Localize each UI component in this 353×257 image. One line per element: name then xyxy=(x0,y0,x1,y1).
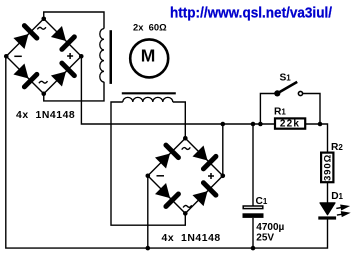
diode BR2 left-to-top arm xyxy=(155,145,178,168)
BR2 ~ mark top xyxy=(182,147,191,149)
svg-text:http://www.qsl.net/va3iul/: http://www.qsl.net/va3iul/ xyxy=(170,5,332,21)
svg-text:4x 1N4148: 4x 1N4148 xyxy=(16,110,75,121)
wire R1 right to junction then to R2 riser xyxy=(306,124,328,152)
wire winding L2 right end to BR2 top node xyxy=(173,102,186,138)
wire winding L2 left end down then right to BR2 bottom node xyxy=(111,102,185,225)
LED D1 light emission arrows xyxy=(336,205,348,216)
junction minus-bus / C1 xyxy=(251,246,256,251)
LED D1 triangle xyxy=(320,203,335,215)
winding L2 horizontal coil xyxy=(123,97,173,102)
node BR1 plus right xyxy=(79,54,84,59)
junction plus-bus / BR2 right riser xyxy=(221,122,226,127)
svg-text:R2: R2 xyxy=(331,142,343,153)
svg-text:S1: S1 xyxy=(280,73,292,84)
wire R2 bottom to LED D1 anode xyxy=(327,183,329,203)
core bar of L2 xyxy=(122,92,176,94)
switch S1 pivot xyxy=(274,90,280,96)
svg-text:2x 60Ω: 2x 60Ω xyxy=(133,21,167,32)
capacitor C1 bottom plate solid xyxy=(243,213,264,218)
switch S1 contact circle xyxy=(298,91,302,95)
core bar of L1 xyxy=(110,30,113,84)
svg-text:390Ω: 390Ω xyxy=(322,154,333,181)
wire S1 right side down to junction xyxy=(303,94,320,125)
junction plus-bus / C1 xyxy=(251,122,256,127)
wire plus bus: BR1 right node down then right to R1 left xyxy=(81,56,274,124)
wire BR2 right node up to plus bus xyxy=(222,124,224,176)
BR1 minus mark xyxy=(14,55,21,57)
svg-text:C1: C1 xyxy=(256,196,268,207)
wire minus bus: BR1 left node down, along bottom, up to LED cathode xyxy=(6,56,328,248)
diode BR1 bottom-to-right arm xyxy=(51,63,74,86)
junction plus-bus / S1 riser xyxy=(258,122,263,127)
junction minus-bus / BR2 left riser xyxy=(146,246,151,251)
node BR2 AC top xyxy=(183,136,188,141)
node BR2 AC bottom xyxy=(183,211,188,216)
junction R1 right / S1 / R2 branch xyxy=(318,122,323,127)
diode BR1 left-to-top arm xyxy=(13,26,36,49)
wire BR2 left node down to minus bus xyxy=(147,176,149,248)
switch S1 blade xyxy=(277,82,297,94)
BR1 ~ mark top xyxy=(37,27,46,29)
winding L1 vertical coil xyxy=(100,29,104,82)
svg-text:R1: R1 xyxy=(274,106,286,117)
resistor R2 box xyxy=(321,153,333,183)
svg-text:4x 1N4148: 4x 1N4148 xyxy=(162,233,221,244)
node BR2 plus right xyxy=(221,174,226,179)
node BR1 minus left xyxy=(4,54,9,59)
svg-text:25V: 25V xyxy=(256,233,274,244)
wire C1 bottom lead to minus bus xyxy=(252,218,254,248)
BR2 plus mark xyxy=(208,173,214,179)
BR2 ~ mark bottom xyxy=(183,205,192,207)
bridge rectifier BR1 diamond wiring xyxy=(6,19,81,94)
wire BR1 bottom node to winding L1 bottom xyxy=(44,82,104,101)
node BR2 minus left xyxy=(146,174,151,179)
wire BR1 top node to winding L1 top xyxy=(44,12,104,29)
BR2 minus mark xyxy=(157,175,165,177)
svg-text:4700µ: 4700µ xyxy=(256,222,284,233)
diode BR2 bottom-to-right arm xyxy=(193,183,216,206)
capacitor C1 top plate outline xyxy=(243,206,263,209)
wire S1 branch left riser xyxy=(260,94,275,125)
motor M circle xyxy=(130,39,168,77)
wire C1 top lead xyxy=(252,124,254,206)
BR1 ~ mark bottom xyxy=(39,81,48,83)
diode BR2 top-to-right arm xyxy=(193,145,216,168)
resistor R1 box xyxy=(275,118,305,128)
svg-text:22k: 22k xyxy=(280,119,300,130)
node BR1 AC bottom xyxy=(41,91,46,96)
diode BR2 left-to-bottom arm xyxy=(155,183,178,206)
LED D1 cathode bar xyxy=(318,216,336,219)
bridge rectifier BR2 diamond wiring xyxy=(148,138,223,213)
BR1 plus mark xyxy=(67,53,73,59)
node BR1 AC top xyxy=(41,16,46,21)
svg-text:M: M xyxy=(141,46,156,66)
diode BR1 top-to-right arm xyxy=(51,26,74,49)
svg-text:D1: D1 xyxy=(331,191,343,202)
diode BR1 left-to-bottom arm xyxy=(13,63,36,86)
